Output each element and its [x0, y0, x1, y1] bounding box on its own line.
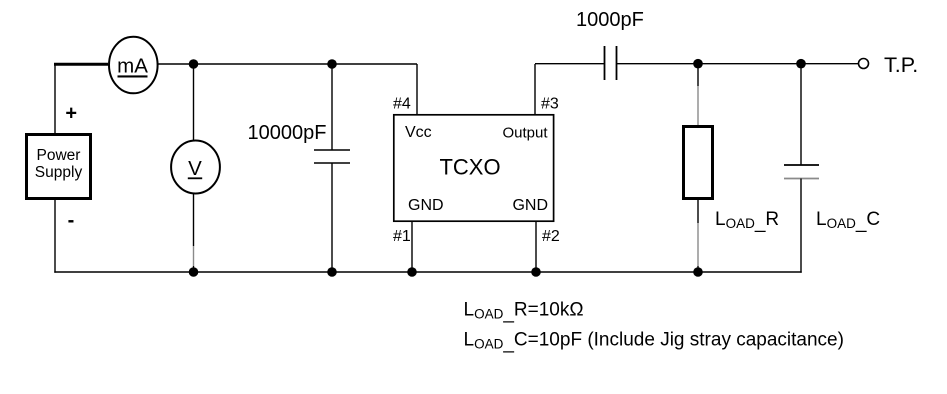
- svg-text:TCXO: TCXO: [439, 155, 500, 180]
- node junction bottom load resistor: [693, 267, 703, 277]
- wire load resistor bottom black: [697, 198, 699, 223]
- capacitor C2 left plate: [604, 46, 606, 80]
- wire load resistor top gray: [697, 86, 699, 125]
- wire voltmeter top: [193, 64, 195, 141]
- node junction bottom capacitor: [327, 267, 337, 277]
- svg-text:V: V: [188, 157, 202, 180]
- wire voltmeter bottom black: [193, 194, 195, 247]
- wire voltmeter bottom gray: [193, 246, 195, 266]
- ammeter underline: [118, 75, 148, 77]
- svg-text:LOAD_R: LOAD_R: [715, 209, 779, 233]
- wire top rail from ammeter to pin4: [158, 63, 417, 65]
- capacitor C1 top plate: [314, 149, 350, 151]
- power supply DC source box: [27, 135, 91, 199]
- wire pin1 drop: [411, 222, 413, 272]
- node junction bottom voltmeter: [189, 267, 199, 277]
- resistor LOAD_R body: [684, 127, 713, 199]
- svg-text:Supply: Supply: [35, 164, 83, 181]
- svg-text:GND: GND: [512, 197, 548, 214]
- wire pin2 drop: [535, 222, 537, 272]
- svg-text:LOAD_R=10kΩ: LOAD_R=10kΩ: [464, 300, 584, 324]
- svg-text:-: -: [68, 210, 75, 232]
- node junction top capacitor: [327, 59, 337, 69]
- svg-text:1000pF: 1000pF: [576, 9, 644, 31]
- capacitor C1 bottom plate: [314, 162, 350, 164]
- wire voltmeter bottom to rail: [193, 266, 195, 272]
- ammeter mA circle: [109, 37, 158, 94]
- wire load resistor top black: [697, 64, 699, 86]
- wire series capacitor to test point: [617, 63, 859, 65]
- wire power supply + up: [54, 64, 56, 134]
- svg-text:Power: Power: [37, 147, 81, 164]
- wire pin4 drop: [416, 64, 418, 114]
- node junction top voltmeter: [189, 59, 199, 69]
- wire capacitor C1 top: [331, 64, 333, 150]
- wire load capacitor bottom: [800, 179, 802, 273]
- svg-text:#2: #2: [542, 228, 560, 245]
- svg-text:Output: Output: [502, 125, 548, 142]
- voltmeter V circle: [171, 141, 220, 194]
- svg-text:#1: #1: [393, 228, 411, 245]
- svg-text:#4: #4: [393, 96, 411, 113]
- capacitor C2 right plate: [616, 46, 618, 80]
- node junction bottom pin2: [531, 267, 541, 277]
- wire load resistor bottom gray: [697, 223, 699, 266]
- capacitor LOAD_C top plate: [784, 164, 819, 166]
- svg-text:+: +: [65, 103, 77, 125]
- wire load capacitor top: [800, 64, 802, 165]
- wire thick to ammeter: [54, 63, 108, 66]
- node junction load resistor top: [693, 59, 703, 69]
- svg-text:LOAD_C: LOAD_C: [816, 209, 880, 233]
- wire power supply minus down: [54, 199, 56, 273]
- svg-text:LOAD_C=10pF (Include Jig stray: LOAD_C=10pF (Include Jig stray capacitan…: [464, 330, 844, 354]
- op TCXO box U1: [394, 115, 554, 221]
- voltmeter underline: [188, 177, 202, 179]
- svg-text:Vcc: Vcc: [405, 124, 432, 141]
- svg-text:10000pF: 10000pF: [248, 122, 327, 144]
- node junction bottom pin1: [407, 267, 417, 277]
- svg-text:mA: mA: [117, 55, 148, 78]
- test point terminal circle: [859, 59, 869, 69]
- wire pin3 to series capacitor: [535, 63, 605, 65]
- wire capacitor C1 bottom: [331, 163, 333, 272]
- svg-text:#3: #3: [541, 96, 559, 113]
- capacitor LOAD_C bottom plate gray: [784, 178, 819, 180]
- svg-text:GND: GND: [408, 197, 444, 214]
- wire bottom ground rail: [54, 271, 801, 273]
- svg-text:T.P.: T.P.: [884, 53, 918, 77]
- node junction load capacitor top: [796, 59, 806, 69]
- wire load resistor bottom to rail: [697, 266, 699, 272]
- wire pin3 up: [534, 64, 536, 115]
